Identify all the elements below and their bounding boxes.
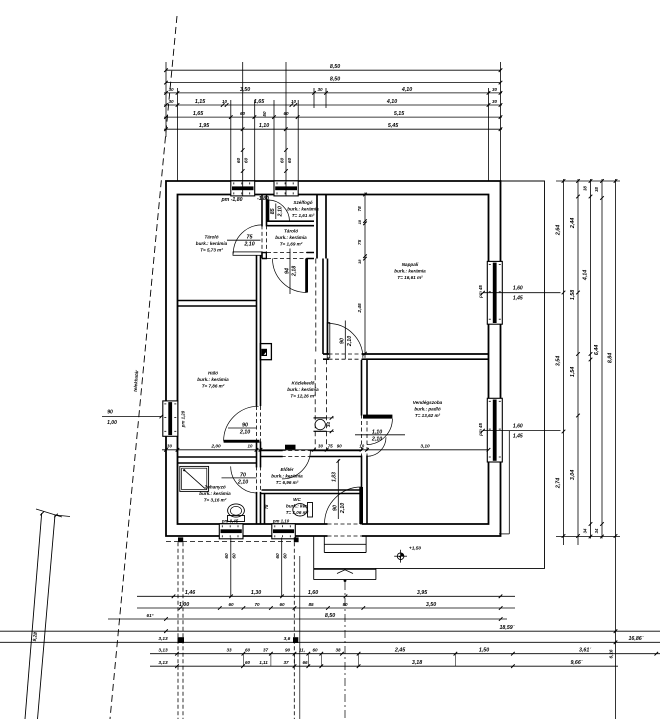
svg-text:3,18: 3,18 (412, 660, 422, 666)
right dim line 4 (594, 179, 604, 539)
parapet text window1 (220, 197, 242, 203)
right dim line 5 (608, 179, 618, 719)
svg-text:60: 60 (236, 158, 242, 164)
svg-text:T= 5,73 m²: T= 5,73 m² (200, 248, 223, 253)
door 75/210 to storage room (227, 225, 268, 255)
svg-text:T= 1,06 m²: T= 1,06 m² (286, 510, 309, 515)
top dim row 1 (8,50) (164, 64, 502, 72)
room label big room 16,61 (394, 262, 426, 280)
site boundary (telekhatar) dashed line (110, 16, 177, 719)
top dim row 5 (1,65 60 50 60 5,15) (164, 111, 502, 119)
svg-text:60: 60 (244, 158, 250, 164)
window W4 right wall 160 (487, 398, 502, 462)
svg-text:1,10: 1,10 (259, 123, 269, 129)
svg-text:94: 94 (284, 268, 290, 274)
svg-text:5,45: 5,45 (388, 123, 399, 129)
double door 110/210 to living room (355, 415, 405, 457)
svg-text:60: 60 (283, 111, 289, 116)
svg-text:Zuhanyzó: Zuhanyzó (203, 484, 226, 489)
svg-text:8,50: 8,50 (325, 613, 335, 619)
svg-text:T= 7,86 m²: T= 7,86 m² (202, 384, 225, 389)
svg-text:85: 85 (308, 602, 314, 607)
svg-text:70: 70 (254, 602, 260, 607)
svg-text:70: 70 (240, 472, 246, 478)
svg-text:30: 30 (168, 99, 174, 104)
svg-text:90: 90 (333, 505, 339, 511)
svg-text:pm 45: pm 45 (478, 423, 483, 437)
right dim line 1 (556, 179, 566, 545)
svg-text:10: 10 (248, 444, 253, 449)
fence post square left (178, 537, 183, 542)
top extension lines (166, 62, 501, 181)
outer walls (166, 181, 501, 536)
bottom dim row 60 1,11 (150, 660, 618, 668)
svg-text:3,61´: 3,61´ (579, 648, 592, 654)
svg-text:30: 30 (318, 444, 323, 449)
room label vestibule 1,61 (287, 200, 319, 218)
svg-text:60: 60 (287, 158, 293, 164)
svg-text:1,83: 1,83 (332, 472, 338, 482)
svg-text:burk.: kerámia: burk.: kerámia (197, 377, 229, 382)
axis dash-dot line from entrance (344, 582, 346, 719)
svg-text:30: 30 (317, 87, 323, 92)
svg-text:WC: WC (293, 497, 301, 502)
svg-text:pm 1,28: pm 1,28 (181, 410, 186, 428)
svg-text:30: 30 (492, 87, 498, 92)
room label 1,69 (275, 228, 307, 246)
svg-text:90: 90 (342, 602, 348, 607)
svg-text:2,10: 2,10 (277, 206, 283, 217)
svg-text:2,10: 2,10 (243, 242, 254, 248)
svg-text:34: 34 (583, 528, 588, 533)
window W3 dimension 160/145 (478, 285, 561, 302)
svg-text:4,14: 4,14 (583, 270, 589, 281)
window W2 centerline with 60 60 (279, 62, 293, 196)
svg-text:38: 38 (594, 187, 599, 192)
svg-text:1,15: 1,15 (195, 99, 206, 105)
benchmark level point +1,50 (394, 546, 421, 563)
svg-text:18,59´: 18,59´ (499, 625, 515, 631)
bottom extension verticals (243, 654, 455, 667)
door 75/210 to dining (282, 445, 311, 479)
svg-text:78: 78 (264, 504, 269, 509)
svg-text:Közlekedő: Közlekedő (292, 380, 315, 385)
svg-text:1,46: 1,46 (185, 590, 195, 596)
svg-text:60: 60 (312, 648, 318, 653)
parapet text window6 (221, 519, 239, 524)
door 90/218 vestibule to hall (267, 249, 308, 295)
svg-text:33: 33 (226, 648, 232, 653)
svg-text:38: 38 (583, 186, 588, 191)
svg-text:75: 75 (328, 444, 333, 449)
svg-text:5,15: 5,15 (394, 111, 405, 117)
window W3 right wall 160 (487, 261, 502, 324)
svg-text:2,45: 2,45 (357, 303, 363, 314)
right dim line 2 (570, 179, 580, 545)
svg-text:Szélfogó: Szélfogó (293, 200, 312, 205)
svg-text:Tároló: Tároló (284, 228, 298, 233)
svg-text:60: 60 (283, 553, 289, 559)
svg-text:2,45: 2,45 (394, 648, 406, 654)
svg-text:60: 60 (279, 158, 285, 164)
svg-text:3,04: 3,04 (570, 470, 576, 480)
svg-text:34: 34 (326, 422, 331, 428)
svg-text:10: 10 (291, 99, 297, 104)
chimney flue with circle (314, 416, 335, 433)
interior dim row y450 (162, 444, 490, 452)
svg-text:60: 60 (240, 111, 246, 116)
svg-text:2,18: 2,18 (292, 266, 298, 277)
svg-text:34: 34 (594, 528, 599, 533)
svg-text:2,10: 2,10 (237, 479, 248, 485)
svg-text:10: 10 (222, 99, 228, 104)
svg-text:T= 13,62 m²: T= 13,62 m² (415, 413, 441, 418)
fence dashed line below WC wall (294, 542, 300, 719)
svg-text:6,16: 6,16 (608, 649, 613, 658)
svg-text:burk.: kerámia: burk.: kerámia (199, 491, 231, 496)
svg-text:2,10: 2,10 (340, 503, 346, 514)
svg-text:4,10: 4,10 (401, 87, 412, 93)
svg-text:61°: 61° (147, 613, 154, 618)
svg-text:1,65: 1,65 (254, 99, 265, 105)
svg-text:8,50: 8,50 (330, 77, 340, 83)
window W5 left wall 90 (163, 401, 178, 436)
room label shower 3,16 (199, 484, 231, 502)
door 90/210 to room 7.86 (224, 406, 262, 443)
svg-text:60: 60 (224, 553, 230, 559)
svg-text:90: 90 (285, 648, 291, 653)
site width 6,16 rotated (608, 649, 613, 658)
svg-text:T= 1,69 m²: T= 1,69 m² (280, 242, 303, 247)
svg-text:T= 1,61 m²: T= 1,61 m² (292, 213, 315, 218)
bottom dim row 3 (8,50) (108, 613, 507, 621)
svg-text:3,54: 3,54 (556, 356, 562, 366)
window W6 centerline with 60 60 (224, 538, 238, 597)
svg-text:60: 60 (228, 602, 234, 607)
svg-text:burk.: kerámia: burk.: kerámia (196, 241, 228, 246)
top dim row 2 (8,50) (164, 77, 502, 85)
svg-text:2,10: 2,10 (239, 430, 250, 436)
svg-text:3,13: 3,13 (158, 660, 168, 666)
svg-text:1,60: 1,60 (308, 590, 318, 596)
svg-text:85: 85 (270, 207, 276, 214)
svg-text:38: 38 (335, 648, 341, 653)
svg-text:8,84: 8,84 (608, 353, 614, 363)
svg-text:6,44: 6,44 (594, 345, 600, 355)
door 90/210 hall to big room (327, 321, 363, 361)
svg-text:1,45: 1,45 (513, 433, 523, 439)
interior walls (178, 195, 489, 525)
svg-text:1,45: 1,45 (513, 296, 523, 302)
svg-text:1,58: 1,58 (570, 290, 576, 300)
svg-text:burk.: kerámia: burk.: kerámia (287, 387, 319, 392)
svg-text:3,6: 3,6 (284, 636, 291, 642)
bottom site row 18,59 (0, 625, 660, 633)
top dim row 6 (1,95 1,10 5,45) (164, 123, 502, 131)
svg-text:burk.: padló: burk.: padló (414, 407, 440, 412)
svg-text:60: 60 (275, 553, 281, 559)
left window dimension 90/100 (102, 410, 186, 429)
svg-text:1,54: 1,54 (570, 367, 576, 377)
svg-text:2,44: 2,44 (570, 218, 576, 229)
svg-text:4,10: 4,10 (386, 99, 397, 105)
room label storage 5,73 (196, 234, 228, 252)
svg-text:burk.: kerámia: burk.: kerámia (287, 207, 319, 212)
svg-text:1,65: 1,65 (193, 111, 204, 117)
svg-text:1,30: 1,30 (251, 590, 261, 596)
room label room 7,86 (197, 370, 229, 388)
room label hall 12,26 (287, 380, 319, 398)
bottom site row 16,86 with posts (0, 636, 660, 644)
svg-text:-1,80: -1,80 (257, 196, 269, 202)
shower tray (180, 466, 209, 491)
svg-text:75: 75 (357, 239, 362, 245)
svg-text:pm -1,80: pm -1,80 (220, 197, 242, 203)
bottom dim row 33 60 37 90 (150, 648, 660, 656)
svg-text:burk.: kerámia: burk.: kerámia (275, 235, 307, 240)
right chain top ticks row (556, 180, 620, 182)
svg-text:2,00: 2,00 (210, 444, 221, 450)
room label WC (286, 497, 309, 515)
svg-text:37: 37 (263, 648, 269, 653)
svg-text:11,: 11, (299, 648, 305, 653)
svg-text:78: 78 (357, 206, 362, 212)
svg-text:9,66´: 9,66´ (570, 660, 583, 666)
svg-text:burk.: ker.: burk.: ker. (286, 504, 308, 509)
svg-text:3,13: 3,13 (158, 636, 168, 642)
window W7 bottom wall 60 (272, 524, 296, 539)
right chain bottom ticks row (556, 536, 620, 538)
toilet WC (293, 503, 313, 518)
svg-text:1,95: 1,95 (199, 123, 210, 129)
parapet text window7 (272, 519, 290, 524)
fence post square right (294, 537, 299, 542)
svg-text:2,10: 2,10 (347, 336, 353, 347)
interior dim line big room (357, 192, 367, 358)
svg-text:+1,50: +1,50 (409, 546, 421, 552)
svg-text:66: 66 (302, 660, 308, 665)
svg-text:1,00: 1,00 (179, 602, 189, 608)
svg-text:50: 50 (262, 111, 267, 117)
svg-text:90: 90 (242, 423, 248, 429)
svg-text:burk.: kerámia: burk.: kerámia (394, 269, 426, 274)
svg-text:1,50: 1,50 (479, 648, 489, 654)
window W1 top wall 60 (231, 181, 255, 196)
top dim row 4 (30 1,15 10 1,65 10 4,10 30) (164, 99, 502, 107)
svg-text:10: 10 (359, 444, 364, 449)
svg-text:2,74: 2,74 (556, 478, 562, 489)
svg-text:18: 18 (357, 259, 362, 264)
svg-text:3,95: 3,95 (417, 590, 428, 596)
svg-text:3,50: 3,50 (426, 602, 436, 608)
svg-text:3,10: 3,10 (420, 444, 430, 450)
right dim line 3 (583, 179, 593, 539)
svg-text:30: 30 (492, 99, 498, 104)
svg-text:T= 16,61 m²: T= 16,61 m² (397, 275, 423, 280)
window W7 centerline with 60 60 (275, 538, 289, 597)
svg-text:30: 30 (168, 87, 174, 92)
electrical box on hall wall (260, 344, 271, 360)
svg-text:16,86´: 16,86´ (628, 636, 644, 642)
svg-text:Vendégszoba: Vendégszoba (413, 400, 443, 405)
bottom dim row 2 (137, 602, 515, 610)
svg-text:3,50: 3,50 (240, 87, 250, 93)
roof eaves outline right side (314, 181, 545, 568)
window W2 top wall 60 (274, 181, 298, 196)
svg-text:pm 45: pm 45 (478, 285, 483, 299)
main entrance door 90/210 (325, 459, 364, 537)
svg-text:90: 90 (107, 410, 113, 416)
svg-text:T= 12,26 m²: T= 12,26 m² (290, 394, 316, 399)
svg-text:1,10: 1,10 (372, 429, 382, 435)
washbasin bathroom (228, 504, 245, 522)
svg-text:37: 37 (283, 660, 289, 665)
svg-text:1,11: 1,11 (259, 660, 268, 665)
svg-text:Nappali: Nappali (402, 262, 419, 267)
svg-text:60: 60 (279, 602, 285, 607)
entrance steps (314, 537, 376, 582)
site boundary double line bottom-left with dimension (25, 509, 70, 719)
window W6 bottom wall 60 (219, 524, 243, 539)
room label dining 6,96 (271, 467, 303, 485)
svg-text:60: 60 (245, 660, 251, 665)
svg-text:Előtér: Előtér (280, 467, 293, 472)
eaves dashed line below bottom wall (166, 541, 294, 543)
svg-text:75: 75 (247, 235, 254, 241)
svg-text:T= 6,96 m²: T= 6,96 m² (276, 480, 299, 485)
svg-text:1,60: 1,60 (513, 424, 523, 430)
svg-text:pm 0,45: pm 0,45 (221, 519, 239, 524)
bottom dim row 1 (137, 590, 515, 598)
fence dashed lines below left wall (178, 542, 183, 719)
svg-text:90: 90 (340, 338, 346, 344)
svg-text:T= 3,16 m²: T= 3,16 m² (204, 498, 227, 503)
svg-text:30: 30 (167, 444, 172, 449)
svg-text:Háló: Háló (208, 370, 218, 375)
window W1 centerline with 60 60 (236, 62, 250, 196)
svg-text:2,10: 2,10 (371, 436, 382, 442)
svg-text:18: 18 (357, 219, 362, 224)
svg-text:burk.: kerámia: burk.: kerámia (271, 474, 303, 479)
svg-text:9,28: 9,28 (32, 632, 39, 642)
svg-text:8,50: 8,50 (330, 64, 340, 70)
svg-text:Tároló: Tároló (204, 234, 218, 239)
WC 78 dim (264, 504, 269, 509)
svg-text:2,64: 2,64 (556, 225, 562, 236)
door 70/210 bathroom (222, 466, 262, 493)
top dim row 3 (30 3,50 30 4,10 30) (164, 87, 502, 95)
svg-text:60: 60 (245, 648, 251, 653)
parapet text window2 (257, 196, 269, 202)
svg-text:90: 90 (337, 444, 342, 449)
svg-text:1,60: 1,60 (513, 286, 523, 292)
svg-text:1,00: 1,00 (107, 420, 117, 426)
window W4 dimension 160/145 (478, 423, 561, 534)
svg-text:pm 1,10: pm 1,10 (272, 519, 290, 524)
room label living room 13,62 (413, 400, 443, 418)
svg-text:3,13: 3,13 (158, 648, 168, 654)
svg-text:60: 60 (232, 553, 238, 559)
door 85/210 vestibule (267, 199, 290, 221)
